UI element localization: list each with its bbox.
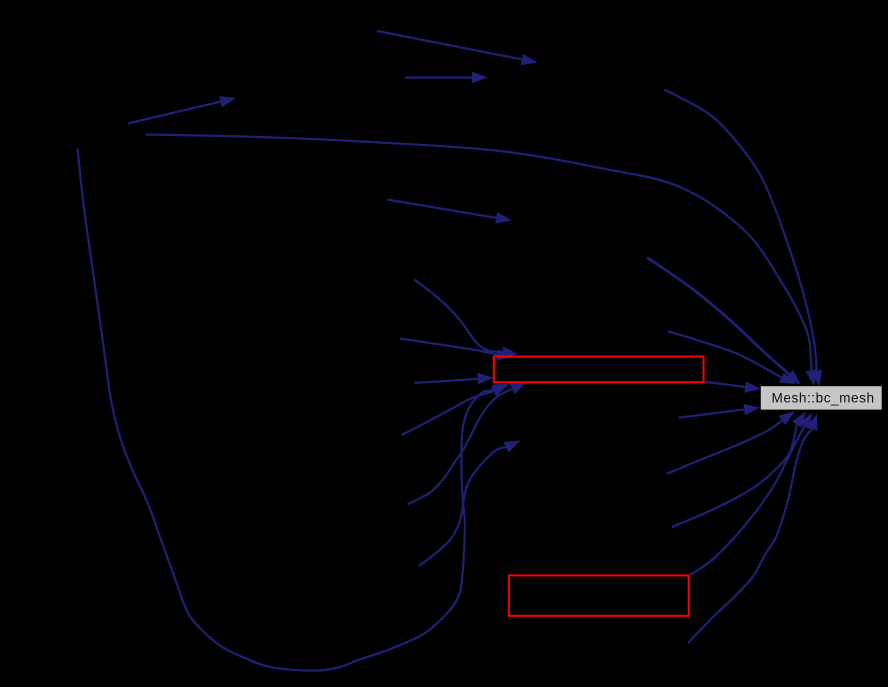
svg-text:Mesh::bc_mesh: Mesh::bc_mesh [772, 390, 875, 405]
edge F [387, 200, 512, 224]
edge O [419, 441, 521, 567]
edge E [405, 72, 488, 84]
edge S [668, 331, 796, 384]
edge d [690, 413, 812, 576]
edge A [128, 96, 236, 123]
edge G [665, 90, 823, 387]
node box red 1 [494, 357, 704, 383]
edge c [672, 412, 806, 528]
edge J [415, 373, 494, 385]
edge W1 [704, 381, 761, 393]
node box red 2 [509, 575, 689, 615]
edge H [414, 279, 518, 357]
edge B [146, 135, 817, 387]
edge N [401, 385, 508, 436]
edge C [78, 149, 510, 671]
edge M [408, 382, 527, 505]
edge D [377, 31, 538, 65]
edge I [400, 339, 513, 361]
edge R [647, 258, 801, 386]
edge b [667, 411, 795, 474]
node Mesh::bc_mesh [761, 386, 882, 409]
edge e [688, 414, 817, 643]
edge W2 [679, 404, 760, 418]
